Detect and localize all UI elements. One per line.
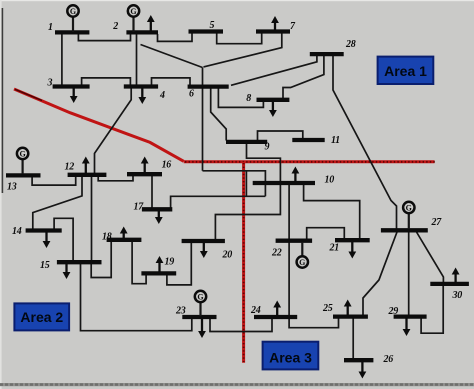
bottom border band [0,383,474,386]
svg-text:G: G [70,7,76,16]
wire 2-6 diagonal [141,45,203,68]
svg-text:G: G [299,258,305,267]
wire 4-6 [152,78,191,86]
Area 2 box [14,303,69,330]
bus 21 [335,238,370,242]
wire 9-11 [258,131,303,141]
load arrow up bus 25 [344,300,352,316]
wire 29-30 [421,286,443,334]
generator G bus 23 [195,291,206,316]
wire 12-14 [33,177,82,229]
wire 1-3 [61,34,63,85]
wire 13-12 [32,177,76,186]
svg-text:2: 2 [112,21,118,32]
wire 9-10 [247,144,281,182]
svg-text:19: 19 [165,257,175,268]
svg-text:6: 6 [189,89,194,100]
bus 7 [256,29,290,33]
wire 4-12 [95,88,132,173]
wire 5-7 [217,33,262,44]
svg-text:G: G [19,149,25,158]
wire 8-28 diagonal [283,56,324,99]
generator G bus 27 [403,202,414,229]
generator G bus 2 [128,5,139,32]
load arrow down bus 3 [70,89,78,104]
red area boundary diagonal [14,89,184,161]
load arrow down bus 20 [200,243,208,258]
top edge light strip [0,0,474,1]
left edge light strip [0,0,2,389]
wire 23-24 [210,318,272,332]
generator G bus 22 [297,242,308,268]
load arrow down bus 29 [403,319,411,337]
svg-text:29: 29 [388,306,399,317]
load arrow down bus 21 [348,242,356,259]
svg-text:15: 15 [40,260,50,271]
wire 2-4 [136,34,138,85]
wire 16-17 [151,176,153,208]
load arrow down bus 17 [155,211,163,224]
bus 28 [310,52,344,56]
svg-text:G: G [130,7,136,16]
svg-text:22: 22 [271,248,282,259]
wire 10-21 [304,185,360,239]
red area boundary horizontal [184,160,435,163]
red boundary diagonal dark tip [15,89,42,100]
wire 10-22-24-25 vertical [289,185,338,328]
svg-text:23: 23 [175,306,186,317]
wire 14-15 [54,218,73,260]
wire 27-29 [408,232,410,315]
bus 22 [276,239,313,243]
svg-text:26: 26 [383,354,394,365]
svg-text:Area 2: Area 2 [20,309,63,325]
svg-text:10: 10 [325,175,335,186]
left border line [1,8,3,193]
wire 15-23 [81,264,192,331]
load arrow down bus 4 [138,89,146,105]
svg-text:G: G [197,292,203,301]
Area 1 box [378,57,434,84]
svg-text:27: 27 [431,217,443,228]
load arrow up bus 2 [147,15,155,34]
Area 3 box [263,342,319,370]
load arrow up bus 19 [156,256,164,272]
red area boundary vertical [242,162,245,363]
svg-text:21: 21 [329,243,339,254]
bus 14 [26,228,62,232]
wire 1-2 [78,34,130,41]
wire 10-20 [215,185,280,240]
svg-text:Area 3: Area 3 [269,350,312,366]
wire 3-4 [82,78,131,86]
generator G bus 1 [67,5,78,32]
svg-text:9: 9 [265,142,270,153]
svg-text:3: 3 [47,78,53,89]
bus 5 [189,29,224,33]
bus 19 [141,271,176,275]
bus 8 [257,98,290,102]
bus 30 [430,282,469,286]
wire 2-5 [158,33,193,41]
svg-text:G: G [406,203,412,212]
red horizontal dark stipple [185,161,436,163]
bus 12 [68,173,107,177]
wire 6 riser vertical [202,68,204,171]
bus 24 [254,315,297,319]
bus 6 [188,84,229,88]
wire 19-20 [167,243,191,285]
svg-text:13: 13 [7,182,17,193]
svg-text:11: 11 [331,135,340,146]
svg-text:20: 20 [222,250,233,261]
bus 26 [344,358,373,362]
load arrow up bus 24 [273,301,281,316]
generator G bus 13 [17,148,28,174]
wire 27-25 diagonal [363,232,397,315]
wire 6-10 horizontal [203,170,247,172]
load arrow up bus 18 [120,227,128,239]
load arrow up bus 16 [141,157,149,173]
bus 23 [182,315,216,319]
bus 1 [55,30,89,34]
bus 29 [394,314,427,318]
bus 2 [126,30,158,34]
svg-text:4: 4 [159,90,165,101]
svg-text:17: 17 [134,202,145,213]
svg-text:12: 12 [65,162,75,173]
wire 10-17 [171,196,266,207]
svg-text:5: 5 [210,20,215,31]
svg-text:24: 24 [250,305,261,316]
wire 25-26 [352,318,354,358]
bus 9 [226,140,267,144]
red vertical dark stipple [243,163,245,362]
wire 18-19 [132,242,146,284]
bus 27 [381,228,428,232]
load arrow down bus 14 [43,232,51,248]
load arrow down bus 26 [359,362,367,379]
bus 10 [253,181,315,185]
svg-text:30: 30 [452,290,463,301]
wire 12-15 [91,177,93,261]
svg-text:16: 16 [162,160,172,171]
bus 4 [124,84,158,88]
bus 16 [127,172,162,176]
bus 15 [57,260,102,264]
bus 3 [53,84,90,88]
bus 20 [182,239,225,243]
load arrow up bus 10 [292,167,300,182]
wire 6-8 [218,88,263,107]
svg-text:1: 1 [48,22,53,33]
svg-text:14: 14 [12,226,22,237]
bottom border dashes [0,383,474,385]
wire 12-16 [98,176,133,181]
load arrow up bus 12 [82,157,90,174]
svg-text:8: 8 [246,93,251,104]
svg-text:18: 18 [102,232,112,243]
bus 11 [292,138,324,142]
wire 10 loop rectangle [246,171,265,197]
bus 25 [333,314,368,318]
load arrow down bus 8 [269,102,277,118]
load arrow up bus 30 [452,268,460,283]
wire 27-30 diagonal [417,232,444,282]
svg-text:25: 25 [322,303,333,314]
svg-text:Area 1: Area 1 [384,63,427,79]
bus 17 [142,207,172,211]
bus 13 [6,173,41,177]
svg-text:28: 28 [345,39,356,50]
load arrow up bus 7 [271,16,279,33]
wire 7-6 riser and diagonal [204,33,282,67]
wire 28-27 diagonal [333,56,397,229]
wire 6-28 diagonal [231,56,317,85]
wire 21-22 tie [307,228,345,239]
load arrow down bus 15 [63,264,71,279]
wire 6-9 [211,88,227,140]
wire 15-18 [91,242,111,278]
bus 18 [107,238,142,242]
load arrow down bus 23 [198,319,206,338]
